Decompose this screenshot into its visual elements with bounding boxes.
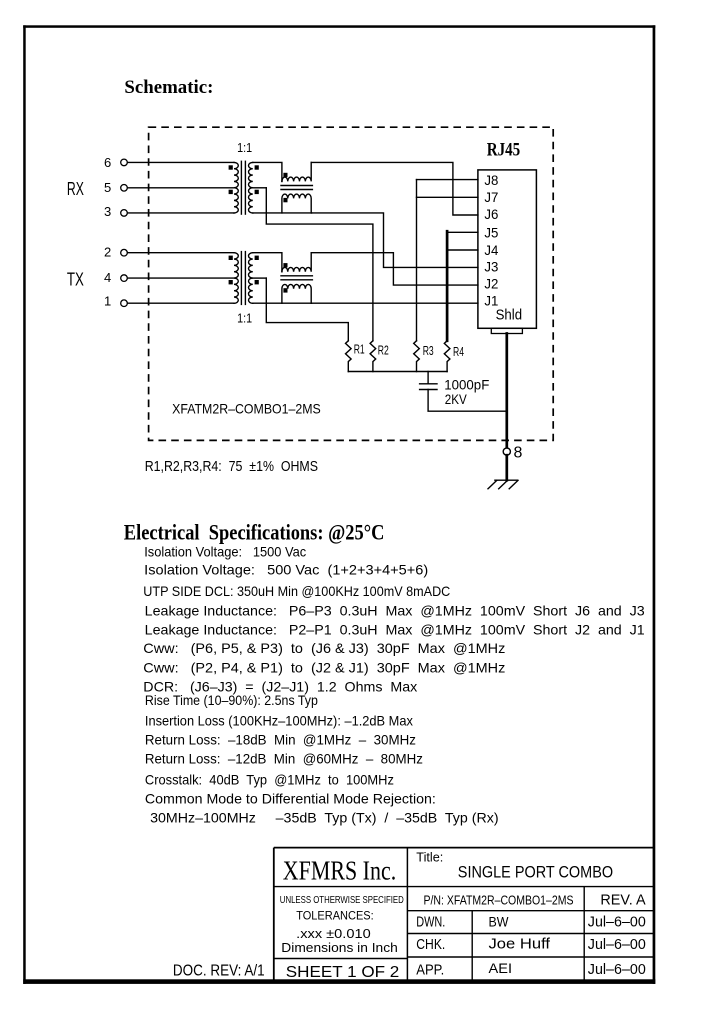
svg-text:3: 3 <box>104 204 111 219</box>
svg-text:Dimensions in Inch: Dimensions in Inch <box>281 940 398 955</box>
svg-text:Return Loss: –12dB Min @60M: Return Loss: –12dB Min @60MHz – 80MHz <box>145 751 423 767</box>
svg-text:2KV: 2KV <box>445 391 468 407</box>
svg-text:DOC. REV: A/1: DOC. REV: A/1 <box>173 963 265 980</box>
svg-text:R4: R4 <box>453 345 464 359</box>
svg-text:J1: J1 <box>484 292 498 308</box>
svg-text:Cww: (P2, P4, & P1) to (J2: Cww: (P2, P4, & P1) to (J2 & J1) 30pF Ma… <box>143 659 505 675</box>
svg-text:J8: J8 <box>484 172 498 188</box>
svg-text:Common Mode to Differential Mo: Common Mode to Differential Mode Rejecti… <box>145 791 436 807</box>
svg-text:1: 1 <box>104 294 111 309</box>
svg-text:J6: J6 <box>484 206 498 222</box>
svg-text:Shld: Shld <box>496 308 522 324</box>
svg-text:RX: RX <box>67 179 84 199</box>
svg-text:J7: J7 <box>484 189 498 205</box>
svg-text:2: 2 <box>104 244 111 259</box>
svg-text:Electrical Specifications: @2: Electrical Specifications: @25°C <box>124 519 385 545</box>
svg-text:APP.: APP. <box>416 963 444 979</box>
svg-text:1:1: 1:1 <box>237 310 252 325</box>
svg-text:5: 5 <box>104 180 111 195</box>
svg-text:8: 8 <box>514 445 523 462</box>
svg-text:J4: J4 <box>484 242 498 258</box>
svg-text:R1,R2,R3,R4: 75 ±1% OHMS: R1,R2,R3,R4: 75 ±1% OHMS <box>145 458 318 475</box>
svg-text:R2: R2 <box>378 343 389 357</box>
svg-text:J3: J3 <box>484 259 498 275</box>
svg-text:REV. A: REV. A <box>600 892 645 909</box>
svg-text:1:1: 1:1 <box>237 140 252 155</box>
svg-text:.xxx ±0.010: .xxx ±0.010 <box>296 927 371 941</box>
svg-text:R1: R1 <box>354 342 365 356</box>
svg-text:UNLESS OTHERWISE SPECIFIED: UNLESS OTHERWISE SPECIFIED <box>280 894 404 906</box>
svg-text:Jul–6–00: Jul–6–00 <box>588 937 646 953</box>
svg-text:Isolation Voltage: 500 Vac: Isolation Voltage: 500 Vac (1+2+3+4+5+6) <box>144 562 428 578</box>
svg-text:4: 4 <box>104 270 111 285</box>
svg-text:Insertion Loss (100KHz–100MHz): Insertion Loss (100KHz–100MHz): –1.2dB M… <box>145 713 413 729</box>
svg-text:Cww: (P6, P5, & P3) to (J6: Cww: (P6, P5, & P3) to (J6 & J3) 30pF Ma… <box>143 640 505 656</box>
svg-text:J2: J2 <box>484 276 498 292</box>
svg-text:Schematic:: Schematic: <box>124 77 213 98</box>
svg-text:UTP SIDE DCL: 350uH Min @100KH: UTP SIDE DCL: 350uH Min @100KHz 100mV 8m… <box>143 583 450 599</box>
svg-text:AEI: AEI <box>489 960 513 976</box>
svg-text:SINGLE PORT COMBO: SINGLE PORT COMBO <box>458 863 613 882</box>
svg-text:XFMRS Inc.: XFMRS Inc. <box>283 855 396 885</box>
svg-text:Jul–6–00: Jul–6–00 <box>588 962 646 978</box>
svg-text:Crosstalk: 40dB Typ @1MHz: Crosstalk: 40dB Typ @1MHz to 100MHz <box>145 772 394 788</box>
svg-text:P/N: XFATM2R–COMBO1–2MS: P/N: XFATM2R–COMBO1–2MS <box>424 893 574 908</box>
svg-text:CHK.: CHK. <box>416 937 445 953</box>
svg-text:BW: BW <box>489 913 510 929</box>
svg-text:30MHz–100MHz –35dB Typ (T: 30MHz–100MHz –35dB Typ (Tx) / –35dB Typ … <box>150 810 499 826</box>
svg-text:Leakage Inductance: P6–P3 0: Leakage Inductance: P6–P3 0.3uH Max @1MH… <box>145 603 645 619</box>
svg-text:Leakage Inductance: P2–P1 0: Leakage Inductance: P2–P1 0.3uH Max @1MH… <box>145 622 645 638</box>
svg-text:Title:: Title: <box>416 850 443 864</box>
svg-text:Rise Time (10–90%): 2.5ns Typ: Rise Time (10–90%): 2.5ns Typ <box>145 692 318 708</box>
svg-text:SHEET 1 OF 2: SHEET 1 OF 2 <box>286 964 400 981</box>
svg-text:Jul–6–00: Jul–6–00 <box>588 915 646 931</box>
svg-text:TX: TX <box>67 269 84 289</box>
svg-text:XFATM2R–COMBO1–2MS: XFATM2R–COMBO1–2MS <box>172 401 321 417</box>
svg-text:Return Loss: –18dB Min @1MH: Return Loss: –18dB Min @1MHz – 30MHz <box>145 732 416 748</box>
svg-text:6: 6 <box>104 155 111 170</box>
svg-text:R3: R3 <box>423 344 434 358</box>
svg-text:Isolation Voltage: 1500 Vac: Isolation Voltage: 1500 Vac <box>144 544 306 560</box>
svg-text:Joe Huff: Joe Huff <box>489 937 552 953</box>
svg-text:J5: J5 <box>484 224 498 240</box>
svg-text:DWN.: DWN. <box>416 915 445 931</box>
svg-text:TOLERANCES:: TOLERANCES: <box>296 909 374 923</box>
svg-text:RJ45: RJ45 <box>487 140 521 160</box>
